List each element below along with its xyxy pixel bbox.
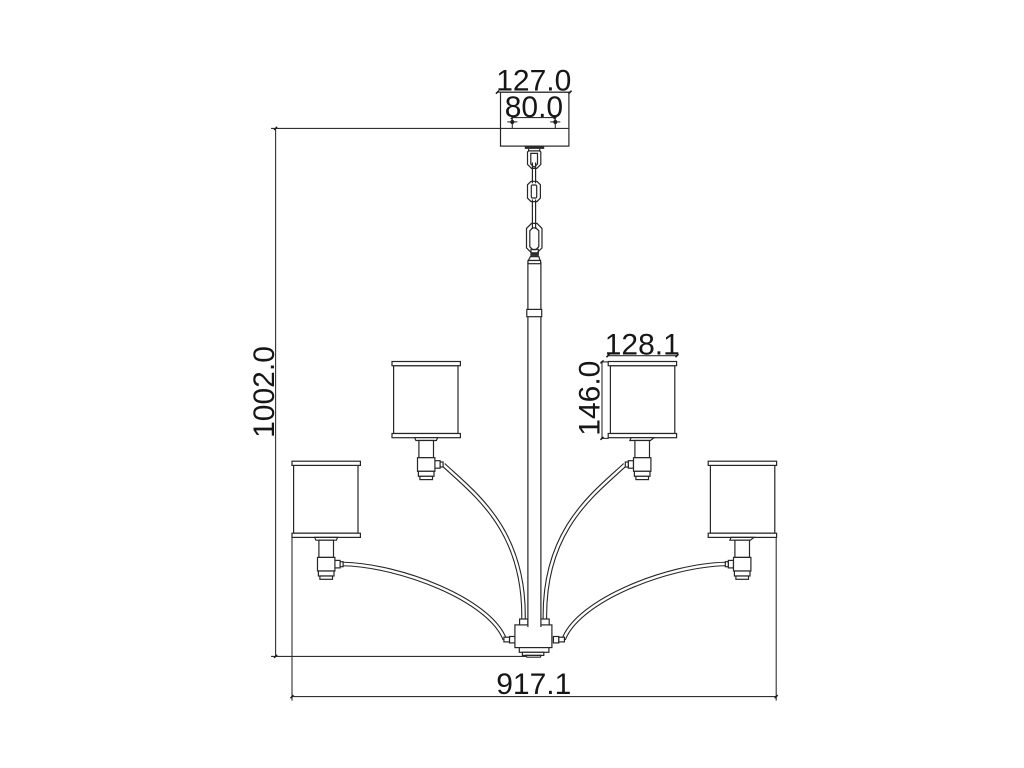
label 127.0 — [496, 65, 571, 98]
arm inner right — [545, 465, 625, 620]
svg-text:917.1: 917.1 — [496, 668, 571, 701]
arm outer left — [343, 564, 505, 640]
dimension 127.0 line — [497, 91, 570, 93]
hub arm block left — [520, 619, 528, 625]
stem rod — [528, 262, 541, 627]
chain link 3 (tall face-on) — [527, 223, 543, 253]
extension line bottom (fixture bottom) — [271, 655, 527, 657]
label 80.0 — [505, 91, 563, 124]
hub arm block right — [541, 619, 549, 625]
chain edge link B — [532, 200, 535, 229]
dimension end ticks — [274, 91, 778, 698]
arm outer right — [564, 564, 726, 640]
extension line top (canopy plate) — [271, 127, 569, 129]
svg-text:146.0: 146.0 — [574, 361, 607, 436]
dimension 80.0 line — [512, 117, 556, 119]
canopy box — [501, 92, 569, 146]
hub finial — [526, 655, 541, 657]
dimension 128.1 line — [608, 355, 677, 357]
socket inner left — [415, 438, 443, 480]
stem coupler ring — [527, 309, 542, 316]
socket outer left — [315, 537, 343, 579]
label 146.0 — [574, 361, 607, 436]
chain link 2 (face-on) — [528, 181, 541, 201]
chain bottom knuckle — [530, 249, 538, 256]
stem top cap — [528, 257, 541, 264]
chain link 1 (shackle) — [528, 151, 541, 169]
hub step 2 — [522, 652, 543, 655]
mounting screw right — [550, 118, 560, 129]
dimension 146.0 line — [601, 362, 609, 439]
shade inner left — [392, 362, 460, 438]
socket inner right — [625, 438, 654, 480]
svg-text:128.1: 128.1 — [605, 329, 680, 362]
socket outer right — [725, 537, 754, 579]
hub side tab left — [504, 637, 515, 643]
hub side tab right — [553, 637, 564, 643]
svg-text:1002.0: 1002.0 — [248, 346, 281, 438]
shade outer right — [708, 461, 776, 537]
dimension 1002.0 vertical line — [275, 128, 277, 656]
dimension 917.1 bottom line — [292, 537, 776, 700]
label 128.1 — [605, 329, 680, 362]
label 1002.0 — [248, 346, 281, 438]
hub step 1 — [519, 648, 549, 653]
shade inner right — [608, 362, 676, 438]
shade outer left — [292, 461, 360, 537]
label 917.1 — [496, 668, 571, 701]
chain collar below canopy (dark) — [525, 146, 544, 151]
mounting screw left — [507, 118, 517, 129]
arm inner left — [444, 465, 524, 620]
chain edge link A — [532, 163, 535, 184]
hub body — [515, 625, 552, 648]
